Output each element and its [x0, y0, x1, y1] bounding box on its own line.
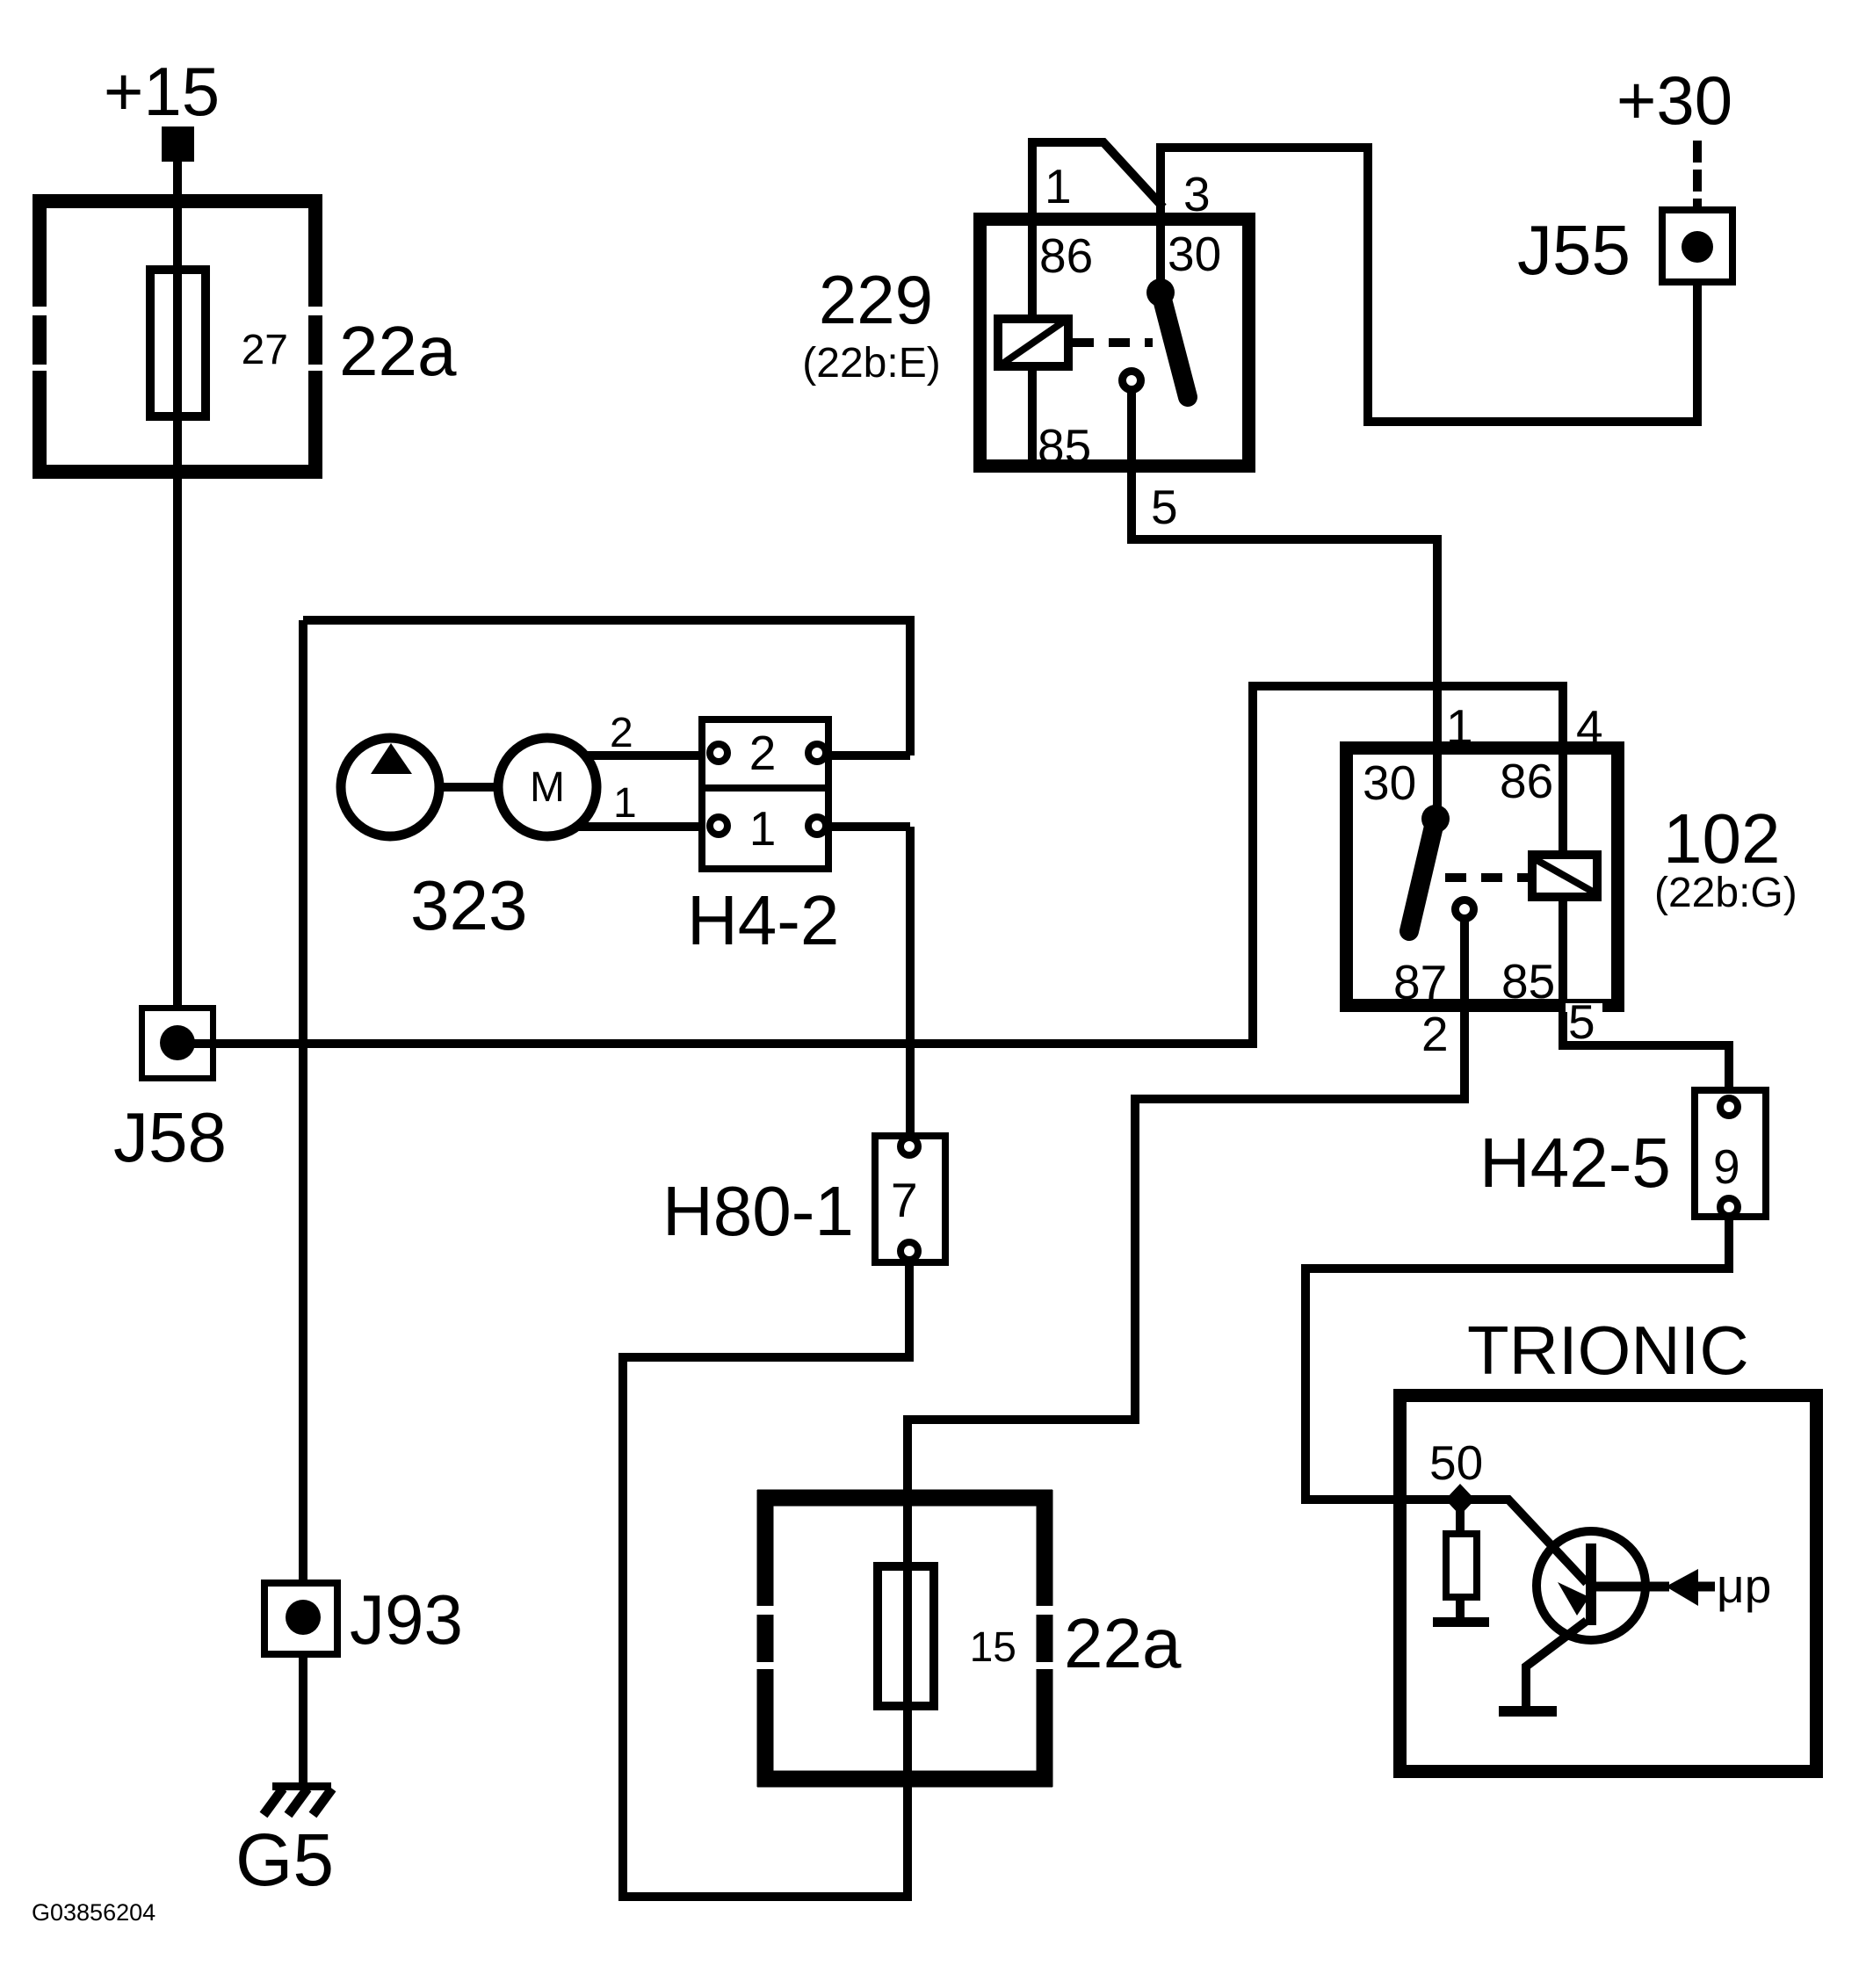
transistor base wire to uP: [1591, 1582, 1669, 1592]
svg-text:7: 7: [891, 1173, 918, 1227]
svg-text:85: 85: [1501, 954, 1555, 1008]
wire H80-1 to fuse 15 to relay 102 pin 2: [623, 1010, 1465, 1897]
fusebox 22a top (dashed): [33, 194, 322, 479]
relay 229 box: [980, 220, 1249, 466]
svg-text:50: 50: [1429, 1435, 1483, 1490]
wire motor pin 1: [575, 822, 910, 831]
wire sender to motor: [438, 783, 500, 792]
relay 102 box: [1347, 748, 1618, 1006]
relay 102 contact 2: [1456, 900, 1474, 919]
relay 102 switch 30: [1433, 748, 1442, 819]
wire motor ground loop / J93 branch: [299, 620, 307, 1583]
svg-text:4: 4: [1576, 700, 1603, 755]
relay 102 pin 5 wire to H42-5: [1563, 1012, 1729, 1090]
svg-text:J55: J55: [1517, 211, 1631, 289]
svg-text:5: 5: [1151, 480, 1178, 534]
transistor collector to ground: [1526, 1621, 1587, 1708]
relay 229 switch 30: [1156, 220, 1165, 293]
junction 50: [1445, 1484, 1475, 1515]
svg-text:85: 85: [1038, 419, 1091, 474]
relay 102 pin 5 label: [1566, 1003, 1602, 1042]
relay 229 dashed link: [1073, 338, 1153, 347]
wire J58 to relay 102 coil: [177, 686, 1563, 1044]
fuse 27 symbol: [150, 270, 206, 416]
svg-text:J58: J58: [113, 1098, 227, 1176]
wire H4-2 pin1 down to H80-1: [906, 827, 915, 1139]
svg-text:30: 30: [1363, 755, 1416, 810]
splice J58: [142, 1008, 213, 1079]
fuse 15 symbol: [878, 1566, 934, 1706]
wire loop top and right: [303, 620, 910, 755]
svg-text:27: 27: [242, 327, 288, 373]
node +15 terminal: [162, 127, 194, 162]
relay 102 coil: [1559, 748, 1567, 855]
wire +30 dashed: [1693, 141, 1702, 206]
svg-text:H42-5: H42-5: [1479, 1124, 1671, 1202]
svg-text:1: 1: [613, 780, 637, 827]
transistor circle: [1537, 1531, 1645, 1640]
svg-text:(22b:G): (22b:G): [1654, 870, 1797, 916]
relay 229 pin 3 wire to J55: [1161, 148, 1697, 422]
pump sender circle 323: [341, 738, 439, 836]
svg-text:2: 2: [610, 710, 633, 756]
svg-text:86: 86: [1039, 228, 1093, 283]
wire motor pin 2: [583, 751, 910, 760]
svg-text:1: 1: [749, 801, 777, 856]
relay 102 dashed link: [1445, 873, 1528, 882]
svg-text:G03856204: G03856204: [32, 1899, 155, 1926]
svg-text:30: 30: [1168, 227, 1221, 281]
svg-text:(22b:E): (22b:E): [802, 340, 940, 387]
splice J93: [264, 1583, 337, 1654]
ground G5: [272, 1782, 331, 1790]
connector H4-2: [702, 719, 828, 869]
svg-text:5: 5: [1568, 994, 1595, 1049]
resistor: [1456, 1500, 1465, 1530]
svg-text:86: 86: [1500, 754, 1553, 808]
svg-text:229: 229: [819, 261, 933, 338]
svg-text:TRIONIC: TRIONIC: [1467, 1312, 1749, 1389]
svg-text:+30: +30: [1616, 61, 1732, 139]
svg-text:J93: J93: [350, 1580, 463, 1659]
svg-text:22a: 22a: [339, 312, 457, 390]
transistor emitter wire from 50: [1460, 1500, 1587, 1583]
svg-text:22a: 22a: [1064, 1604, 1182, 1682]
svg-text:102: 102: [1663, 799, 1780, 878]
svg-text:H4-2: H4-2: [687, 881, 839, 959]
svg-text:+15: +15: [104, 53, 220, 130]
svg-text:2: 2: [1421, 1007, 1449, 1061]
svg-text:1: 1: [1045, 159, 1072, 213]
svg-text:15: 15: [970, 1624, 1016, 1671]
splice J55: [1662, 210, 1732, 282]
svg-text:87: 87: [1393, 955, 1447, 1009]
svg-text:G5: G5: [235, 1818, 334, 1901]
wire J93 to G5: [299, 1654, 307, 1784]
relay 229 pin 1 wire: [1032, 142, 1163, 216]
transistor base bar: [1586, 1543, 1596, 1625]
svg-text:1: 1: [1446, 699, 1473, 754]
svg-text:H80-1: H80-1: [662, 1172, 854, 1250]
svg-text:M: M: [530, 764, 565, 811]
connector H42-5: [1695, 1090, 1766, 1217]
relay 229 coil: [1028, 220, 1037, 319]
connector H80-1: [875, 1136, 945, 1262]
svg-text:2: 2: [749, 726, 777, 780]
svg-text:9: 9: [1713, 1139, 1740, 1194]
svg-text:μp: μp: [1717, 1558, 1771, 1613]
relay 229 pin 5 wire: [1132, 390, 1437, 745]
ground bar resistor: [1433, 1617, 1489, 1627]
svg-text:323: 323: [410, 866, 527, 944]
svg-text:3: 3: [1183, 167, 1211, 221]
wire H42-5 to TRIONIC pin 50: [1305, 1220, 1729, 1500]
motor circle M: [498, 738, 597, 836]
TRIONIC box: [1400, 1396, 1817, 1772]
relay 229 contact 5: [1123, 372, 1141, 390]
transistor emitter arrow: [1558, 1582, 1589, 1616]
fusebox 22a bottom (dashed): [757, 1490, 1052, 1787]
wire +15 to fuse 27 to J58: [173, 160, 182, 1007]
